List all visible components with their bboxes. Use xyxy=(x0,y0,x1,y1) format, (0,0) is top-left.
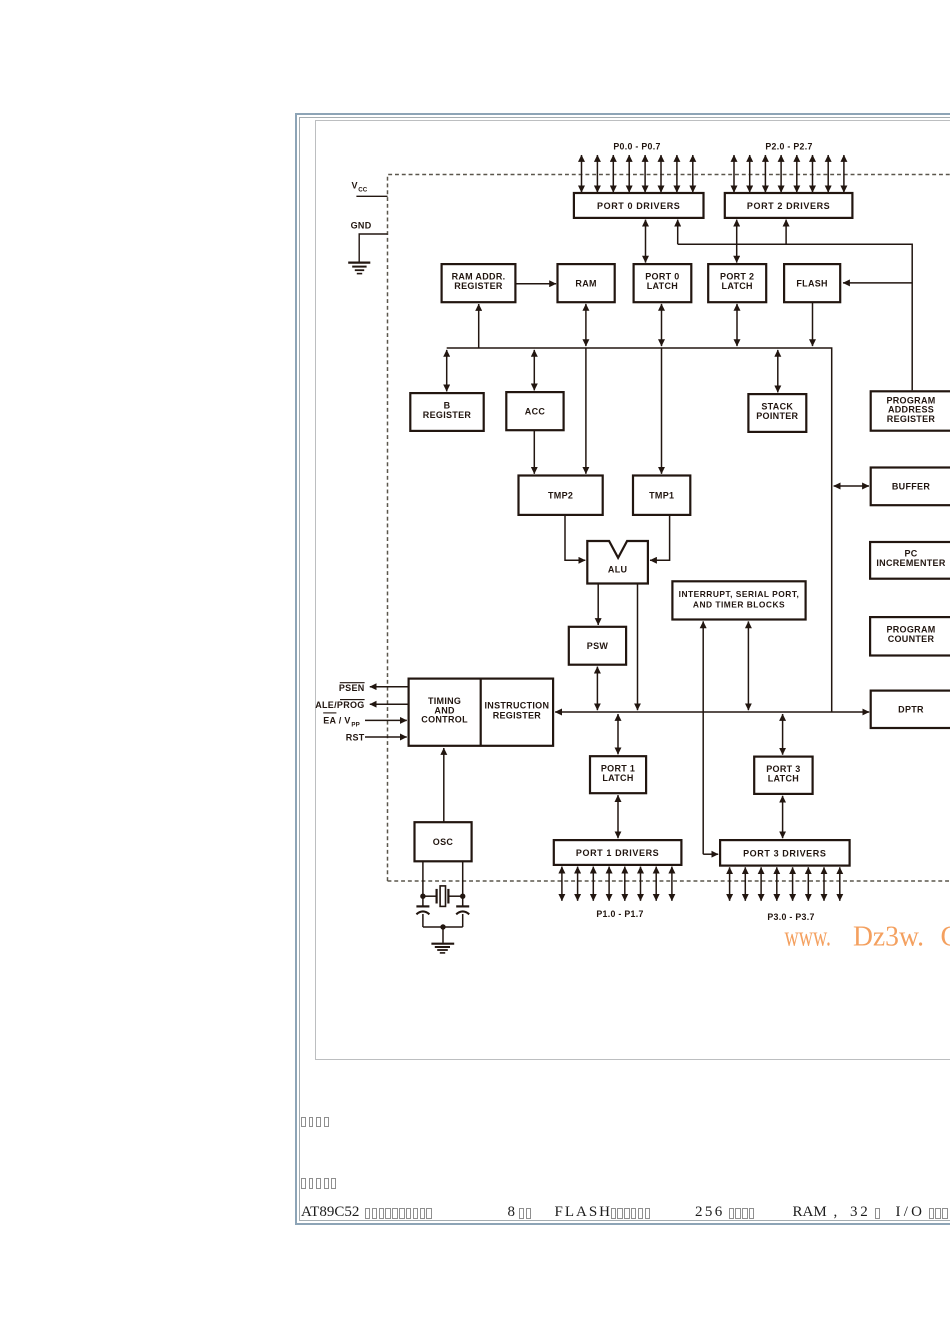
svg-text:PORT 3: PORT 3 xyxy=(766,764,800,774)
svg-text:PORT 1: PORT 1 xyxy=(601,764,635,774)
svg-text:PORT 1 DRIVERS: PORT 1 DRIVERS xyxy=(576,848,659,858)
svg-text:OSC: OSC xyxy=(433,837,454,847)
svg-text:www.: www. xyxy=(785,921,832,952)
svg-text:CC: CC xyxy=(358,187,368,194)
svg-text:PSW: PSW xyxy=(587,641,609,651)
svg-text:PSEN: PSEN xyxy=(339,683,365,693)
svg-text:PORT 0 DRIVERS: PORT 0 DRIVERS xyxy=(597,201,680,211)
svg-text:REGISTER: REGISTER xyxy=(493,710,542,720)
svg-text:P1.0 - P1.7: P1.0 - P1.7 xyxy=(596,909,643,919)
svg-text:STACK: STACK xyxy=(761,401,793,411)
svg-text:PORT 2: PORT 2 xyxy=(720,271,754,281)
svg-text:REGISTER: REGISTER xyxy=(423,410,472,420)
svg-text:AND TIMER BLOCKS: AND TIMER BLOCKS xyxy=(693,599,785,609)
svg-text:RAM: RAM xyxy=(575,278,596,288)
svg-text:TMP2: TMP2 xyxy=(548,490,573,500)
svg-text:PP: PP xyxy=(351,721,359,728)
svg-text:INTERRUPT, SERIAL PORT,: INTERRUPT, SERIAL PORT, xyxy=(679,589,800,599)
svg-text:LATCH: LATCH xyxy=(602,773,633,783)
svg-text:REGISTER: REGISTER xyxy=(454,281,503,291)
svg-text:DPTR: DPTR xyxy=(898,705,924,715)
svg-text:GND: GND xyxy=(351,220,372,230)
svg-text:C: C xyxy=(941,921,950,952)
svg-text:Dz3w.: Dz3w. xyxy=(853,921,924,952)
svg-text:V: V xyxy=(352,180,358,190)
svg-text:RAM ADDR.: RAM ADDR. xyxy=(452,271,506,281)
svg-text:LATCH: LATCH xyxy=(722,281,753,291)
svg-text:BUFFER: BUFFER xyxy=(892,482,930,492)
svg-text:REGISTER: REGISTER xyxy=(887,414,936,424)
svg-text:FLASH: FLASH xyxy=(796,278,828,288)
svg-text:P2.0 - P2.7: P2.0 - P2.7 xyxy=(765,142,812,152)
svg-text:PORT 3 DRIVERS: PORT 3 DRIVERS xyxy=(743,848,826,858)
svg-text:RST: RST xyxy=(346,733,365,743)
svg-text:CONTROL: CONTROL xyxy=(421,715,468,725)
svg-text:PC: PC xyxy=(904,548,917,558)
svg-text:LATCH: LATCH xyxy=(647,281,678,291)
svg-text:LATCH: LATCH xyxy=(768,774,799,784)
svg-text:P0.0 - P0.7: P0.0 - P0.7 xyxy=(613,142,660,152)
svg-text:TMP1: TMP1 xyxy=(649,490,674,500)
svg-text:B: B xyxy=(444,400,451,410)
svg-text:INCREMENTER: INCREMENTER xyxy=(876,558,946,568)
svg-text:ALE/PROG: ALE/PROG xyxy=(315,700,364,710)
svg-text:EA / V: EA / V xyxy=(323,715,350,725)
svg-text:PORT 0: PORT 0 xyxy=(645,271,679,281)
svg-text:PROGRAM: PROGRAM xyxy=(886,625,935,635)
svg-text:INSTRUCTION: INSTRUCTION xyxy=(484,701,549,711)
svg-text:ALU: ALU xyxy=(608,565,627,575)
svg-text:PORT 2 DRIVERS: PORT 2 DRIVERS xyxy=(747,201,830,211)
svg-text:ACC: ACC xyxy=(525,406,546,416)
svg-text:COUNTER: COUNTER xyxy=(888,634,935,644)
svg-text:POINTER: POINTER xyxy=(756,411,798,421)
